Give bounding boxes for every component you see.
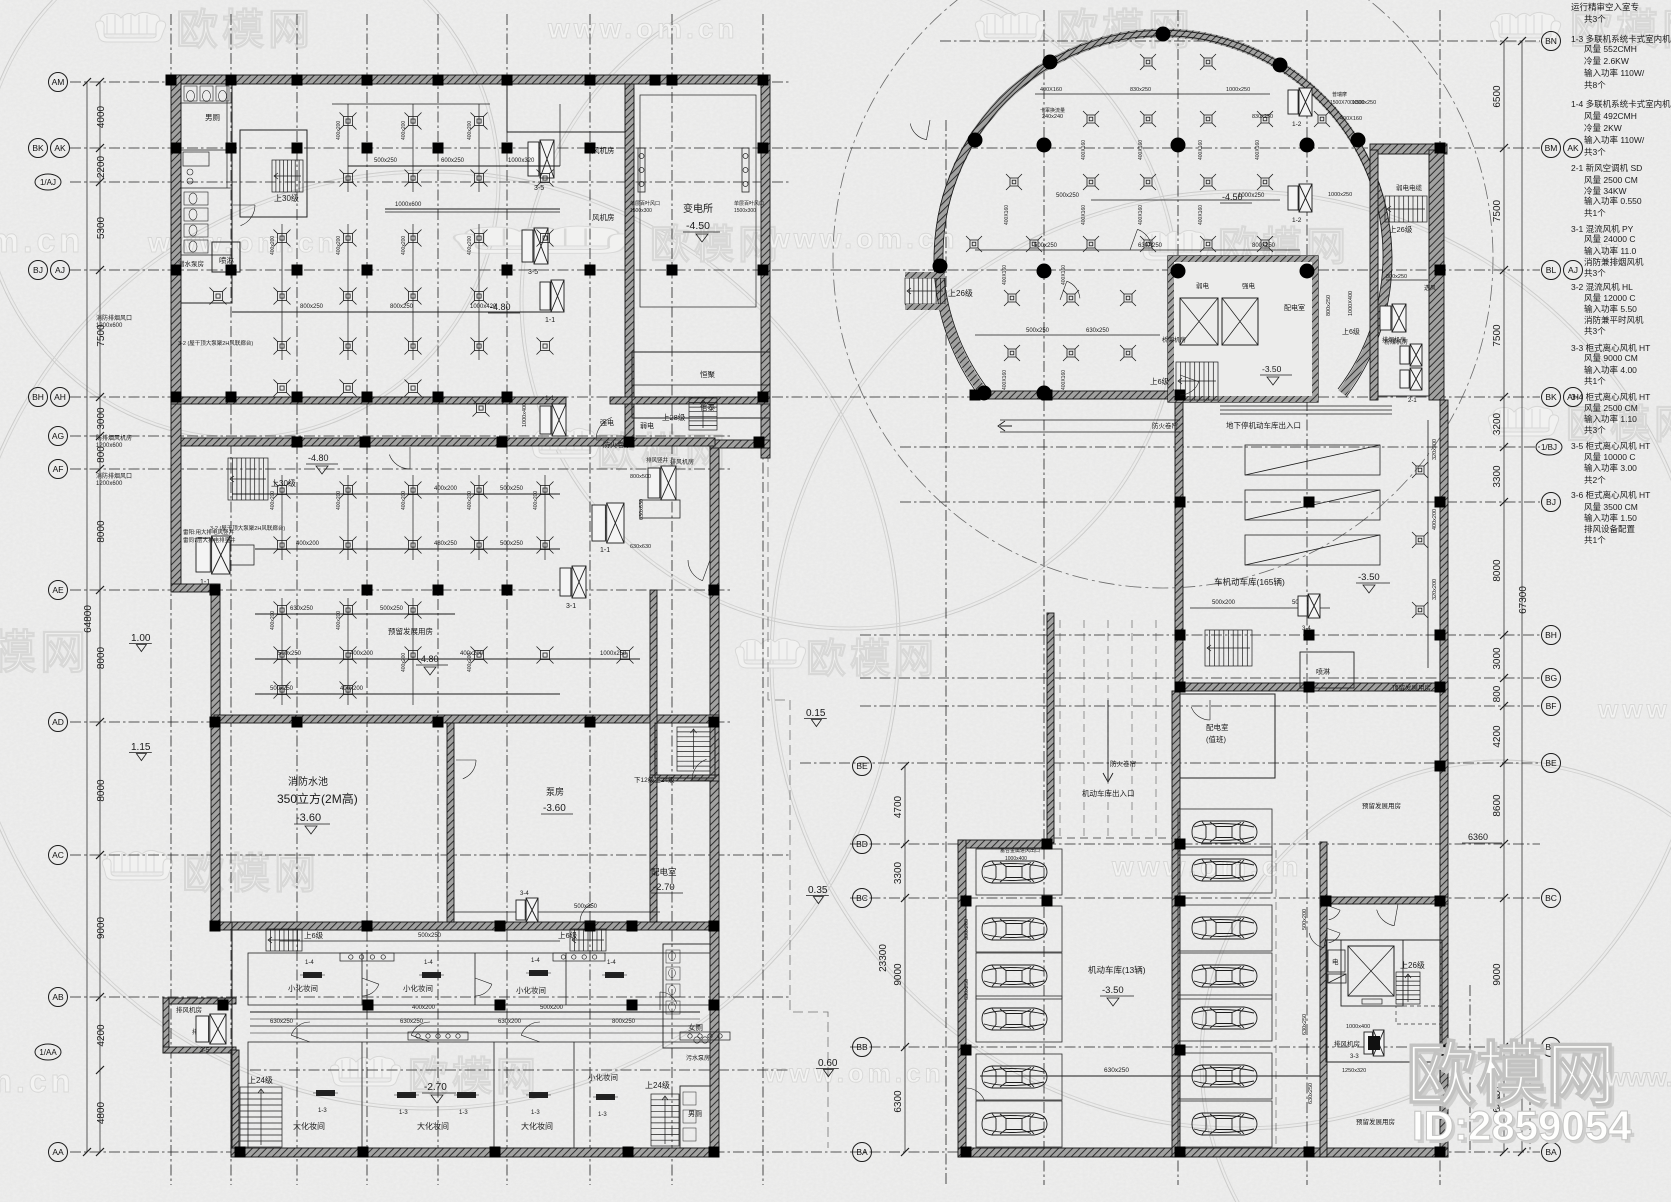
svg-text:400X160: 400X160: [1340, 116, 1362, 122]
spray room garage: [1300, 652, 1354, 688]
svg-text:BE: BE: [1545, 758, 1557, 768]
svg-text:3-5: 3-5: [528, 269, 538, 276]
svg-text:1-4: 1-4: [531, 958, 540, 964]
pump room west wall: [447, 723, 454, 922]
svg-text:欧模网: 欧模网: [176, 6, 314, 53]
svg-text:400x200: 400x200: [412, 1005, 436, 1011]
svg-text:400x200: 400x200: [401, 236, 407, 255]
svg-text:(值班): (值班): [1206, 734, 1226, 744]
svg-text:男厕: 男厕: [205, 113, 220, 122]
svg-text:3000: 3000: [1492, 647, 1503, 670]
svg-text:BC: BC: [856, 893, 868, 903]
svg-text:输入功率 5.50: 输入功率 5.50: [1584, 304, 1637, 314]
svg-text:输入功率 0.550: 输入功率 0.550: [1584, 196, 1642, 206]
svg-text:AJ: AJ: [1568, 265, 1578, 275]
svg-text:1-2: 1-2: [1292, 217, 1302, 224]
svg-text:-4.50: -4.50: [686, 220, 710, 232]
svg-text:BF: BF: [1546, 701, 1557, 711]
svg-text:1-3: 1-3: [459, 1110, 468, 1116]
fan corridor: [516, 898, 538, 922]
svg-text:2200: 2200: [96, 155, 107, 178]
svg-text:320x200: 320x200: [1432, 579, 1438, 600]
svg-text:400X160: 400X160: [1255, 140, 1261, 160]
svg-text:共1个: 共1个: [1584, 535, 1606, 545]
svg-text:1000x250: 1000x250: [1328, 192, 1352, 198]
svg-text:630x250: 630x250: [400, 1019, 424, 1025]
svg-text:欧模网: 欧模网: [806, 637, 938, 681]
svg-text:400x200: 400x200: [270, 611, 276, 630]
right wall lower: [710, 440, 719, 1157]
svg-text:输入功率 4.00: 输入功率 4.00: [1584, 365, 1637, 375]
svg-text:800: 800: [1492, 685, 1503, 702]
svg-text:500x250: 500x250: [500, 486, 524, 492]
svg-text:500x250: 500x250: [1034, 243, 1058, 249]
svg-text:400x200: 400x200: [401, 653, 407, 672]
svg-text:67300: 67300: [1518, 586, 1529, 614]
svg-text:-4.50: -4.50: [1222, 192, 1243, 202]
svg-text:普瑞摩: 普瑞摩: [1332, 91, 1347, 98]
svg-text:BG: BG: [1545, 673, 1557, 683]
pump room east wall: [650, 590, 657, 922]
right bubbles: [1542, 32, 1561, 51]
svg-text:2-1 新风空调机 SD: 2-1 新风空调机 SD: [1571, 163, 1642, 173]
substation inner liner: [640, 95, 756, 307]
svg-text:女厕: 女厕: [688, 1022, 703, 1032]
svg-text:恒聚: 恒聚: [700, 369, 715, 379]
svg-text:3-2 混流风机 HL: 3-2 混流风机 HL: [1571, 282, 1633, 292]
svg-text:320x200: 320x200: [1432, 439, 1438, 460]
svg-text:1-4: 1-4: [607, 960, 616, 966]
corridor ducts core to NE: [1220, 405, 1392, 407]
svg-text:400X160: 400X160: [1138, 140, 1144, 160]
svg-text:3-1 混流风机 PY: 3-1 混流风机 PY: [1571, 224, 1634, 234]
svg-text:AG: AG: [52, 431, 64, 441]
svg-text:信泰: 信泰: [700, 402, 715, 412]
corridor ducts dressing: [250, 1011, 700, 1013]
right wall upper: [761, 75, 770, 458]
svg-text:输入功率 3.00: 输入功率 3.00: [1584, 463, 1637, 473]
svg-text:www.: www.: [1597, 694, 1671, 724]
svg-text:400X160: 400X160: [1081, 205, 1087, 225]
room henju xintai: [632, 352, 770, 418]
svg-text:8000: 8000: [1492, 559, 1503, 582]
svg-text:弱电电缆: 弱电电缆: [1396, 183, 1423, 192]
left wall step: [171, 584, 218, 592]
svg-text:共3个: 共3个: [1584, 268, 1606, 278]
svg-text:喷淋: 喷淋: [1316, 667, 1330, 676]
stair S6: [240, 1087, 282, 1147]
svg-text:1-1: 1-1: [200, 579, 210, 586]
svg-text:上6级: 上6级: [304, 930, 324, 940]
svg-text:400x200: 400x200: [434, 486, 458, 492]
svg-text:3-4 柜式离心风机 HT: 3-4 柜式离心风机 HT: [1571, 392, 1650, 402]
svg-text:500x250: 500x250: [1026, 328, 1050, 334]
svg-text:AE: AE: [52, 585, 64, 595]
svg-text:AH: AH: [54, 392, 66, 402]
svg-text:630x250: 630x250: [270, 1019, 294, 1025]
svg-text:消防排烟风口: 消防排烟风口: [96, 472, 132, 480]
svg-text:1-4 多联机系统卡式室内机: 1-4 多联机系统卡式室内机: [1571, 99, 1671, 109]
svg-text:630x250: 630x250: [964, 979, 970, 1000]
svg-text:BE: BE: [856, 761, 868, 771]
svg-text:500x250: 500x250: [380, 606, 404, 612]
svg-text:480x250: 480x250: [434, 541, 458, 547]
stair S3: [689, 398, 717, 430]
svg-text:1-3 多联机系统卡式室内机: 1-3 多联机系统卡式室内机: [1571, 34, 1671, 44]
svg-text:大化妆间: 大化妆间: [521, 1121, 553, 1131]
left wall mid: [211, 584, 220, 929]
svg-text:共1个: 共1个: [1584, 208, 1606, 218]
left building top wall: [171, 75, 770, 84]
svg-text:ID:2859054: ID:2859054: [1412, 1102, 1632, 1149]
svg-text:排风设备配置: 排风设备配置: [1584, 524, 1636, 534]
svg-text:3-5: 3-5: [200, 1047, 210, 1054]
site boundary dashed circle: [833, 0, 1493, 588]
svg-text:1200x600: 1200x600: [96, 323, 123, 329]
svg-text:400X160: 400X160: [1061, 265, 1067, 285]
svg-text:1200x600: 1200x600: [96, 481, 123, 487]
svg-text:BA: BA: [856, 1147, 868, 1157]
svg-text:消防兼排烟风机: 消防兼排烟风机: [1584, 257, 1644, 267]
svg-text:3300: 3300: [1492, 465, 1503, 488]
svg-text:23300: 23300: [878, 944, 889, 972]
svg-text:排风机房: 排风机房: [670, 458, 694, 466]
svg-text:输入功率 1.50: 输入功率 1.50: [1584, 513, 1637, 523]
svg-text:400x200: 400x200: [467, 491, 473, 510]
svg-text:1000x320: 1000x320: [508, 158, 535, 164]
svg-text:400x200: 400x200: [401, 491, 407, 510]
svg-text:共3个: 共3个: [1584, 14, 1606, 24]
svg-text:风机房: 风机房: [592, 212, 615, 222]
svg-text:400X160: 400X160: [1061, 370, 1067, 390]
svg-text:污水泵房: 污水泵房: [686, 1054, 710, 1062]
fan 1-1 at AG wall: [540, 404, 566, 436]
stair S4 core: [655, 723, 715, 778]
svg-text:400x200: 400x200: [467, 121, 473, 140]
svg-text:630x200: 630x200: [498, 1019, 522, 1025]
core stair: [1176, 362, 1218, 400]
svg-text:风量 12000 C: 风量 12000 C: [1584, 293, 1636, 303]
svg-text:预留发展用房: 预留发展用房: [1362, 801, 1401, 810]
middle dimension chain: [904, 766, 906, 1152]
svg-text:AK: AK: [1567, 143, 1579, 153]
svg-text:500x250: 500x250: [574, 904, 598, 910]
svg-text:3-3: 3-3: [1350, 1054, 1359, 1060]
svg-text:上6级: 上6级: [1150, 376, 1170, 386]
core stair SE: [1396, 972, 1420, 1004]
svg-text:-3.60: -3.60: [543, 803, 566, 814]
svg-text:1000x250: 1000x250: [1352, 100, 1376, 106]
svg-text:1500x300: 1500x300: [630, 208, 652, 214]
svg-text:大化妆间: 大化妆间: [417, 1121, 449, 1131]
svg-text:3-3 柜式离心风机 HT: 3-3 柜式离心风机 HT: [1571, 343, 1650, 353]
grilles dressing corridor: [340, 953, 394, 961]
columns right building: [1175, 390, 1186, 401]
diffusers circle hall: [1140, 54, 1156, 70]
substation louvers: [638, 148, 645, 192]
svg-text:小化妆间: 小化妆间: [588, 1072, 618, 1082]
parking stalls left: [976, 849, 1062, 895]
stair S2: [228, 458, 268, 500]
svg-text:大化妆间: 大化妆间: [293, 1121, 325, 1131]
svg-text:www.om.cn: www.om.cn: [764, 1058, 945, 1088]
svg-text:冷量 2.6KW: 冷量 2.6KW: [1584, 56, 1629, 66]
NE room stair: [1385, 196, 1427, 222]
columns left building: [166, 75, 177, 86]
door arcs: [233, 205, 255, 226]
svg-text:防火卷帘: 防火卷帘: [1152, 421, 1179, 430]
svg-text:8000: 8000: [96, 520, 107, 543]
svg-text:4200: 4200: [96, 1024, 107, 1047]
svg-text:1000X400: 1000X400: [1348, 291, 1354, 316]
svg-text:om.cn: om.cn: [0, 1063, 74, 1099]
right dimension chain: [1503, 41, 1505, 1152]
svg-text:配电室: 配电室: [1284, 303, 1305, 312]
svg-text:强电: 强电: [600, 418, 614, 427]
svg-text:冷量 2KW: 冷量 2KW: [1584, 123, 1622, 133]
svg-text:1-3: 1-3: [399, 1110, 408, 1116]
svg-text:BL: BL: [1546, 265, 1557, 275]
svg-text:400x200: 400x200: [296, 541, 320, 547]
svg-text:防火卷帘: 防火卷帘: [1110, 759, 1137, 768]
svg-text:400X160: 400X160: [1081, 140, 1087, 160]
svg-text:1-2: 1-2: [1292, 121, 1302, 128]
svg-text:喷淋: 喷淋: [219, 255, 234, 265]
svg-text:500x250: 500x250: [374, 158, 398, 164]
svg-text:400x200: 400x200: [401, 121, 407, 140]
svg-text:防排烟风机房: 防排烟风机房: [96, 434, 132, 442]
diffusers left hall: [340, 113, 357, 130]
circle duct lines: [1091, 199, 1280, 201]
exhaust fan lower-left: [196, 1014, 226, 1044]
left bubbles: [49, 73, 68, 92]
svg-text:欧模网: 欧模网: [182, 850, 320, 897]
svg-text:AB: AB: [52, 992, 64, 1002]
svg-text:1.00: 1.00: [131, 633, 151, 644]
svg-text:www.om.cn: www.om.cn: [547, 13, 739, 44]
svg-text:630X250: 630X250: [1138, 243, 1163, 249]
svg-text:共2个: 共2个: [1584, 475, 1606, 485]
svg-text:500x200: 500x200: [1302, 909, 1308, 930]
svg-text:上26级: 上26级: [948, 288, 973, 298]
svg-text:400x200: 400x200: [533, 491, 539, 510]
svg-text:6300: 6300: [893, 1090, 904, 1113]
svg-text:BC: BC: [1545, 893, 1557, 903]
svg-text:欧模网: 欧模网: [0, 626, 90, 678]
watermark row1: [95, 12, 165, 42]
garage right duct: [1427, 420, 1429, 668]
circle fan 1-2 lower: [1288, 184, 1312, 212]
diffuser near AG wall: [473, 400, 490, 417]
svg-text:500x250: 500x250: [1056, 193, 1080, 199]
svg-text:AK: AK: [54, 143, 66, 153]
svg-text:透风: 透风: [1424, 284, 1436, 292]
svg-text:500x250: 500x250: [278, 651, 302, 657]
round columns circle: [933, 259, 948, 274]
svg-text:500x250: 500x250: [418, 933, 442, 939]
svg-text:消防排烟风口: 消防排烟风口: [96, 314, 132, 322]
svg-text:输入功率 110W/: 输入功率 110W/: [1584, 135, 1645, 145]
garage stair: [1205, 630, 1252, 666]
svg-text:64800: 64800: [83, 605, 94, 633]
svg-text:AC: AC: [52, 850, 64, 860]
svg-text:运行精审空入室专: 运行精审空入室专: [1571, 2, 1639, 12]
damper box: [1328, 974, 1346, 983]
svg-text:1200x600: 1200x600: [96, 443, 123, 449]
svg-text:4700: 4700: [893, 795, 904, 818]
svg-text:-2.70: -2.70: [424, 1082, 447, 1093]
svg-text:-3.50: -3.50: [1102, 985, 1124, 996]
svg-text:8600: 8600: [1492, 794, 1503, 817]
svg-text:上26级: 上26级: [1400, 960, 1425, 970]
fan room walls top: [507, 84, 625, 132]
svg-text:3000: 3000: [96, 407, 107, 430]
svg-text:冷量 34KW: 冷量 34KW: [1584, 186, 1627, 196]
svg-text:500x250: 500x250: [500, 541, 524, 547]
svg-text:输入功率 11.0: 输入功率 11.0: [1584, 246, 1637, 256]
svg-text:共3个: 共3个: [1584, 326, 1606, 336]
diffuser risers: [347, 104, 349, 192]
svg-text:共1个: 共1个: [1584, 376, 1606, 386]
wc block bottom right: [680, 1086, 710, 1148]
svg-text:3-1: 3-1: [566, 603, 576, 610]
elevator shafts: [1180, 298, 1218, 345]
circular wall edges: [943, 36, 1383, 389]
svg-text:3-6 柜式离心风机 HT: 3-6 柜式离心风机 HT: [1571, 490, 1650, 500]
svg-text:1-4: 1-4: [424, 960, 433, 966]
svg-text:800x250: 800x250: [1326, 295, 1332, 316]
svg-text:BH: BH: [32, 392, 44, 402]
parking stalls middle: [1178, 809, 1272, 855]
svg-text:400x200: 400x200: [1432, 509, 1438, 530]
stair S7: [651, 1094, 679, 1146]
svg-text:雷同7层大排电排竖井: 雷同7层大排电排竖井: [183, 536, 236, 544]
svg-text:9000: 9000: [893, 963, 904, 986]
grid verticals left building: [170, 14, 172, 1185]
svg-text:消防兼平时风机: 消防兼平时风机: [1584, 315, 1644, 325]
entry ramp arrows: [1000, 419, 1180, 421]
grid horizontals: [70, 81, 790, 83]
svg-text:-3.50: -3.50: [1262, 364, 1282, 374]
fire wall mid: [181, 438, 715, 446]
wc block right: [663, 944, 710, 1048]
bottom wall: [231, 1148, 719, 1157]
svg-text:弱电: 弱电: [1196, 281, 1210, 290]
svg-text:1000x420: 1000x420: [470, 304, 497, 310]
svg-text:排风机房: 排风机房: [176, 1005, 202, 1014]
svg-text:6360: 6360: [1468, 832, 1488, 842]
svg-text:上28级: 上28级: [662, 412, 686, 422]
svg-text:400x200: 400x200: [336, 121, 342, 140]
svg-text:400x200: 400x200: [270, 236, 276, 255]
svg-text:800x250: 800x250: [300, 304, 324, 310]
svg-text:风量 552CMH: 风量 552CMH: [1584, 44, 1637, 54]
svg-text:共3个: 共3个: [1584, 147, 1606, 157]
svg-text:1-4: 1-4: [305, 960, 314, 966]
svg-text:风量 3500 CM: 风量 3500 CM: [1584, 502, 1638, 512]
svg-text:小化妆间: 小化妆间: [288, 983, 318, 993]
svg-text:风量 492CMH: 风量 492CMH: [1584, 111, 1637, 121]
bottom right strip walls: [1320, 842, 1327, 1157]
svg-text:BJ: BJ: [33, 265, 43, 275]
toilet block partitions: [181, 84, 232, 303]
svg-text:630x630: 630x630: [630, 544, 651, 550]
svg-text:4200: 4200: [1492, 725, 1503, 748]
svg-text:单层百叶风口: 单层百叶风口: [630, 200, 660, 207]
svg-text:1000x400: 1000x400: [522, 403, 528, 427]
svg-text:BN: BN: [1545, 36, 1557, 46]
svg-text:8000: 8000: [96, 646, 107, 669]
svg-text:240x240: 240x240: [1042, 114, 1063, 120]
BH partial wall: [171, 397, 566, 404]
svg-text:上6级: 上6级: [1342, 327, 1360, 336]
svg-text:变电所: 变电所: [683, 202, 713, 215]
svg-text:400X160: 400X160: [1138, 205, 1144, 225]
svg-text:小化妆间: 小化妆间: [403, 983, 433, 993]
svg-text:630x250: 630x250: [290, 606, 314, 612]
dressing partitions: [231, 922, 233, 1148]
svg-text:排风竖井: 排风竖井: [646, 456, 669, 464]
bottom right core: [1326, 940, 1442, 1062]
svg-text:卡軍换流量: 卡軍换流量: [1040, 107, 1065, 114]
site boundary dashes left of right building: [768, 452, 828, 1148]
svg-text:2-1: 2-1: [1408, 398, 1417, 404]
washroom counter: [183, 152, 209, 166]
svg-text:风量 24000 C: 风量 24000 C: [1584, 234, 1636, 244]
svg-text:预留发展用房: 预留发展用房: [388, 626, 433, 636]
svg-text:8000: 8000: [96, 779, 107, 802]
svg-text:共8个: 共8个: [1584, 80, 1606, 90]
svg-text:400x200: 400x200: [336, 236, 342, 255]
svg-text:上24级: 上24级: [248, 1075, 273, 1085]
left wall lower: [231, 1050, 239, 1155]
fan platform 3-2: [196, 536, 230, 574]
svg-text:3-5 柜式离心风机 HT: 3-5 柜式离心风机 HT: [1571, 441, 1650, 451]
svg-text:BB: BB: [856, 1042, 868, 1052]
svg-text:地下停机动车库出入口: 地下停机动车库出入口: [1226, 420, 1301, 430]
garage upper walls: [974, 391, 1183, 399]
svg-text:桥架机房: 桥架机房: [1162, 336, 1186, 344]
svg-text:400x200: 400x200: [467, 236, 473, 255]
svg-text:输入功率 1.10: 输入功率 1.10: [1584, 414, 1637, 424]
svg-text:1500x300: 1500x300: [734, 208, 756, 214]
svg-text:1-1: 1-1: [600, 547, 610, 554]
svg-text:5300: 5300: [96, 216, 107, 239]
watermark row3: [530, 428, 600, 458]
svg-text:3300: 3300: [893, 861, 904, 884]
svg-text:电: 电: [1332, 957, 1339, 966]
doors SE core: [1326, 905, 1340, 920]
svg-text:3-4: 3-4: [520, 891, 529, 897]
core wall at AD: [650, 775, 719, 781]
svg-text:小化妆间: 小化妆间: [516, 985, 546, 995]
svg-text:7500: 7500: [1492, 324, 1503, 347]
svg-text:800x250: 800x250: [1386, 274, 1407, 280]
svg-text:-3.50: -3.50: [1358, 572, 1380, 583]
ramp strips: [1245, 445, 1380, 475]
parking guide lines: [1275, 850, 1277, 1148]
svg-text:800x250: 800x250: [1252, 243, 1276, 249]
svg-text:7500: 7500: [1492, 199, 1503, 222]
svg-text:800x250: 800x250: [612, 1019, 636, 1025]
svg-text:6500: 6500: [1492, 85, 1503, 108]
left dimension chain: [99, 82, 101, 1152]
svg-text:排烟机房: 排烟机房: [1382, 336, 1406, 344]
watermark row5: [102, 850, 172, 880]
svg-text:0.35: 0.35: [808, 885, 828, 896]
svg-text:1-3: 1-3: [318, 1108, 327, 1114]
svg-text:1-3: 1-3: [598, 1112, 607, 1118]
